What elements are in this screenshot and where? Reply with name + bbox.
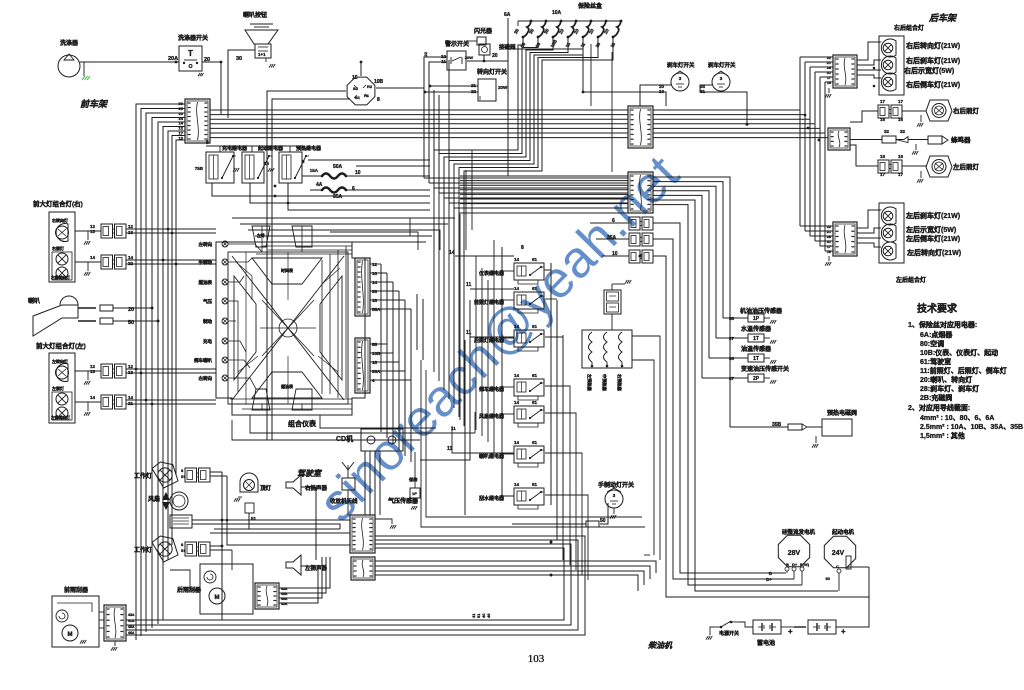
svg-text:14: 14: [514, 257, 520, 262]
svg-text:油温传感器: 油温传感器: [741, 345, 772, 353]
svg-text:61:驾驶室: 61:驾驶室: [920, 357, 951, 366]
svg-text:1,5mm² : 其他: 1,5mm² : 其他: [920, 431, 965, 440]
svg-text:4mm² : 10、80、6、6A: 4mm² : 10、80、6、6A: [920, 415, 994, 422]
svg-text:11: 11: [466, 282, 472, 288]
vertical bundle to cab connector: [464, 340, 466, 515]
svg-text:右前转向灯: 右前转向灯: [50, 275, 70, 280]
bus relay row: [206, 145, 302, 147]
ground buzzer: [915, 144, 917, 150]
svg-text:右转向灯: 右转向灯: [51, 217, 68, 223]
wires cluster to center: [370, 263, 381, 265]
svg-text:14: 14: [90, 255, 96, 260]
wires relay row to center: [232, 217, 455, 219]
svg-text:闪光器: 闪光器: [474, 27, 493, 35]
svg-text:右后照灯: 右后照灯: [952, 106, 980, 115]
svg-text:14: 14: [514, 373, 520, 378]
wires left headlamp 2: [126, 399, 216, 401]
glow plugs box: [582, 330, 632, 368]
speaker right H3: [286, 475, 301, 495]
instrument cluster P1 outline: [216, 242, 365, 415]
glow plug coil 3: [619, 332, 623, 362]
svg-text:前车架: 前车架: [80, 98, 111, 109]
svg-text:起动电机: 起动电机: [831, 528, 855, 536]
svg-text:16: 16: [898, 117, 904, 122]
svg-text:35A: 35A: [333, 194, 343, 200]
relay group outline wires: [459, 247, 461, 420]
svg-text:20W: 20W: [498, 85, 508, 90]
svg-text:6A: 6A: [504, 12, 511, 18]
cluster bottom hug wires: [230, 398, 352, 400]
svg-text:61: 61: [532, 400, 538, 405]
svg-text:50: 50: [600, 518, 606, 524]
center vertical bundle lower: [380, 264, 382, 432]
svg-text:14: 14: [514, 400, 520, 405]
fuse F7: [620, 20, 623, 23]
svg-text:倒车喇叭: 倒车喇叭: [193, 357, 212, 364]
svg-text:15: 15: [372, 298, 378, 303]
ground relay row 1: [233, 168, 235, 172]
svg-text:组合仪表: 组合仪表: [288, 419, 317, 428]
instrument cluster X pattern: [232, 256, 344, 400]
svg-text:2B:充磁阀: 2B:充磁阀: [920, 393, 952, 402]
wire brake switch 2: [700, 85, 747, 124]
svg-text:21: 21: [827, 61, 831, 65]
svg-text:12: 12: [128, 224, 134, 229]
connector C: [628, 172, 653, 213]
wire corner to relays: [421, 360, 645, 527]
svg-text:左后倒车灯(21W): 左后倒车灯(21W): [905, 234, 960, 243]
wire rear wiper left link: [170, 570, 200, 590]
wire to solenoid 35B: [730, 426, 788, 428]
svg-text:80:空调: 80:空调: [920, 339, 944, 348]
svg-text:15: 15: [352, 75, 358, 81]
svg-text:103: 103: [528, 653, 545, 665]
svg-text:22: 22: [827, 225, 831, 229]
svg-text:35A: 35A: [607, 235, 617, 241]
ground horn button: [269, 64, 271, 68]
connector X5 left rear: [833, 222, 857, 256]
glow plug coil 2: [604, 332, 608, 362]
svg-text:61: 61: [532, 257, 538, 262]
cluster internal wires: [232, 244, 262, 252]
wires connector X6 right: [126, 536, 585, 635]
wire buzzer: [850, 139, 882, 141]
svg-text:28: 28: [827, 66, 831, 70]
svg-text:36: 36: [729, 356, 735, 361]
svg-text:50: 50: [826, 576, 831, 581]
corner verticals to cab: [416, 294, 418, 350]
instrument cluster right connector 1: [355, 258, 370, 316]
lamp right rear brake: [881, 56, 896, 74]
svg-text:55: 55: [372, 342, 378, 347]
svg-text:洗涤器开关: 洗涤器开关: [178, 34, 208, 42]
lamp left rear width: [881, 224, 896, 242]
svg-text:28:刹车灯、刹车灯: 28:刹车灯、刹车灯: [920, 384, 979, 393]
svg-text:17: 17: [898, 172, 904, 177]
svg-text:21: 21: [827, 230, 831, 234]
turn vertical drops: [433, 90, 435, 188]
center vertical bundle: [448, 60, 450, 203]
svg-text:22: 22: [423, 51, 428, 56]
svg-text:36: 36: [372, 289, 378, 294]
fuse F5: [590, 20, 593, 23]
svg-text:右后倒车灯(21W): 右后倒车灯(21W): [905, 80, 960, 89]
svg-text:左后照灯: 左后照灯: [952, 162, 980, 171]
svg-text:时间表: 时间表: [281, 267, 293, 273]
svg-text:变速油压传感开关: 变速油压传感开关: [741, 365, 789, 373]
svg-text:1T: 1T: [753, 336, 759, 342]
svg-text:前大灯组合灯(右): 前大灯组合灯(右): [33, 199, 83, 208]
left rear lamp cluster box: [879, 203, 904, 263]
wires left headlamp 1: [126, 368, 216, 370]
ground parking brake: [613, 508, 615, 514]
battery GB2: [808, 620, 836, 634]
svg-text:6: 6: [352, 186, 355, 192]
lamp left rear work: [926, 156, 952, 177]
svg-text:C: C: [836, 564, 839, 569]
connector X8 front wiper: [104, 605, 126, 641]
svg-text:17: 17: [880, 99, 886, 104]
svg-text:51: 51: [251, 516, 257, 521]
svg-text:10B: 10B: [372, 351, 381, 356]
svg-text:左后转向灯(21W): 左后转向灯(21W): [906, 248, 961, 257]
wires above cluster extra: [255, 235, 432, 237]
svg-text:61: 61: [532, 373, 538, 378]
ground left work lamp: [920, 171, 922, 178]
svg-text:CD机: CD机: [336, 434, 353, 443]
relay feeder verticals: [475, 256, 477, 430]
wires starter: [838, 573, 840, 591]
antenna W1: [347, 465, 349, 478]
svg-text:17: 17: [827, 76, 831, 80]
svg-text:左前灯: 左前灯: [51, 385, 64, 391]
svg-text:蜂鸣器: 蜂鸣器: [951, 135, 971, 144]
instrument cluster inner box: [228, 252, 348, 404]
wires below cluster: [250, 415, 430, 433]
svg-text:1+1: 1+1: [258, 52, 266, 57]
cluster overlay verticals: [261, 226, 263, 252]
junction dots X6: [550, 541, 553, 544]
ground right work lamp: [920, 115, 922, 122]
svg-text:燃油表: 燃油表: [199, 279, 213, 286]
svg-text:刹车灯开关: 刹车灯开关: [708, 61, 736, 69]
svg-text:36A: 36A: [372, 369, 381, 374]
label cab 驾驶室: [297, 468, 323, 478]
wires from fuses: [434, 37, 523, 188]
fuse F3: [560, 20, 563, 23]
wire antenna: [347, 490, 349, 515]
label front frame 前车架: [80, 98, 111, 109]
svg-text:左转向: 左转向: [199, 241, 213, 248]
svg-text:左扬声器: 左扬声器: [304, 564, 328, 572]
svg-text:37: 37: [729, 336, 735, 341]
svg-text:30: 30: [236, 56, 242, 62]
svg-text:16: 16: [880, 117, 886, 122]
svg-text:警示开关: 警示开关: [444, 40, 469, 48]
ground right headlamp 1: [84, 231, 88, 240]
glow plug coil 1: [589, 332, 593, 362]
svg-text:后车架: 后车架: [929, 12, 960, 23]
wires CD down: [364, 451, 366, 515]
svg-text:20W: 20W: [465, 55, 473, 60]
svg-text:16: 16: [880, 154, 886, 159]
ground solenoid: [815, 436, 817, 443]
svg-text:手制动灯开关: 手制动灯开关: [598, 481, 634, 489]
svg-text:M: M: [215, 595, 220, 601]
wire ignition left: [267, 91, 346, 440]
svg-text:1、保险丝对应用电器:: 1、保险丝对应用电器:: [908, 320, 977, 329]
svg-text:蓄电池: 蓄电池: [757, 639, 775, 647]
svg-text:喇叭按钮: 喇叭按钮: [243, 11, 267, 19]
ground left headlamp 2: [84, 402, 88, 411]
wires relay row bottom: [212, 183, 430, 196]
svg-text:气压: 气压: [203, 298, 212, 305]
svg-text:柴油机: 柴油机: [647, 640, 675, 650]
svg-text:M: M: [68, 632, 73, 638]
svg-text:刹车灯开关: 刹车灯开关: [667, 61, 695, 69]
wires speaker right: [301, 487, 316, 560]
svg-text:4A: 4A: [316, 182, 323, 188]
wires fuse to connector B: [590, 44, 592, 106]
svg-text:气压传感器: 气压传感器: [387, 497, 419, 505]
cluster inner verticals right: [321, 260, 323, 394]
wires cab extra: [214, 528, 336, 530]
svg-text:46: 46: [486, 613, 491, 618]
svg-text:接磁阀: 接磁阀: [499, 43, 516, 51]
svg-text:前大灯组合灯(左): 前大灯组合灯(左): [36, 341, 86, 350]
svg-text:右后组合灯: 右后组合灯: [893, 24, 924, 32]
fuse F4: [575, 20, 578, 23]
wires front wiper to cab: [99, 611, 104, 613]
wires work lamp 2: [210, 545, 222, 547]
wire hazard left: [424, 57, 447, 178]
svg-text:D+: D+: [766, 577, 772, 582]
fuse F6: [605, 20, 608, 23]
svg-text:前照灯继电器: 前照灯继电器: [474, 299, 505, 306]
wires connector A left bundle: [136, 104, 185, 640]
wires connector X7 right: [375, 561, 656, 573]
svg-text:10B:仪表、仪表灯、起动: 10B:仪表、仪表灯、起动: [920, 348, 998, 357]
label diesel engine 柴油机: [647, 640, 675, 650]
svg-text:右后示宽灯(5W): 右后示宽灯(5W): [903, 66, 954, 75]
svg-text:16: 16: [827, 250, 831, 254]
svg-text:右预热塞: 右预热塞: [616, 374, 623, 392]
rear bundle verticals: [799, 57, 801, 110]
svg-text:左前转向灯: 左前转向灯: [50, 415, 70, 420]
wires cluster top to highway: [345, 218, 410, 236]
svg-text:保险丝盒: 保险丝盒: [577, 2, 603, 10]
svg-text:1T: 1T: [753, 356, 759, 362]
wire glow box right: [632, 336, 660, 560]
svg-text:43A: 43A: [128, 613, 135, 617]
relay right verticals: [550, 263, 552, 505]
ground connector X5: [828, 256, 830, 261]
lamp right rear reverse: [881, 73, 896, 91]
wire pair to lamp left rear: [902, 165, 926, 167]
svg-text:2、对应用导线截面:: 2、对应用导线截面:: [908, 403, 970, 412]
svg-text:55A: 55A: [372, 307, 381, 312]
wires right headlamp 2: [126, 259, 216, 261]
svg-text:15: 15: [372, 360, 378, 365]
svg-text:75B: 75B: [195, 166, 204, 171]
svg-text:17: 17: [880, 172, 886, 177]
svg-text:保险: 保险: [408, 476, 418, 483]
svg-text:手制动: 手制动: [199, 259, 213, 266]
svg-text:20: 20: [492, 53, 498, 59]
lamp right rear turn: [881, 39, 896, 57]
ground connector X3: [828, 88, 830, 93]
svg-text:中预热塞: 中预热塞: [601, 374, 608, 392]
svg-text:技术要求: 技术要求: [917, 302, 958, 315]
svg-text:10A: 10A: [552, 10, 562, 16]
wire batteries link: [738, 622, 753, 627]
svg-text:工作灯: 工作灯: [134, 472, 152, 480]
ground dome lamp: [238, 496, 242, 498]
svg-text:28V: 28V: [788, 550, 801, 557]
svg-text:右后转向灯(21W): 右后转向灯(21W): [905, 41, 960, 50]
wire ignition right: [376, 87, 424, 89]
svg-text:14: 14: [514, 482, 520, 487]
wires connector C right breakout: [653, 177, 730, 427]
wire dome lamp: [249, 513, 340, 529]
svg-text:前雨刮器: 前雨刮器: [64, 586, 89, 594]
svg-text:后照灯继电器: 后照灯继电器: [474, 337, 505, 344]
svg-text:10: 10: [355, 170, 361, 176]
svg-text:15A: 15A: [310, 168, 319, 173]
svg-text:46A: 46A: [128, 631, 135, 635]
wires X5 to lamps: [857, 210, 881, 228]
relay column bus left: [502, 247, 514, 496]
node ignition feed: [220, 61, 223, 64]
svg-text:61: 61: [532, 440, 538, 445]
svg-text:14: 14: [514, 440, 520, 445]
wires to connector X3: [800, 56, 833, 58]
svg-text:右后刹车灯(21W): 右后刹车灯(21W): [905, 56, 960, 65]
instrument cluster bottom shapes: [252, 389, 270, 410]
instrument cluster top shapes: [252, 226, 270, 247]
svg-text:14: 14: [514, 324, 520, 329]
svg-text:32: 32: [884, 129, 890, 134]
svg-text:D+: D+: [792, 562, 798, 567]
svg-text:35B: 35B: [772, 422, 782, 428]
svg-text:1P: 1P: [753, 316, 760, 322]
svg-text:14: 14: [449, 250, 455, 256]
ground left headlamp 1: [84, 371, 88, 380]
svg-text:47: 47: [729, 376, 735, 381]
svg-text:左转: 左转: [256, 233, 265, 238]
svg-text:P(W): P(W): [800, 562, 810, 567]
svg-text:14: 14: [372, 280, 378, 285]
connector X1 front frame: [185, 99, 210, 143]
svg-text:+: +: [788, 627, 793, 636]
connector X2 cab to rear: [628, 106, 653, 148]
label rear frame 后车架: [929, 12, 960, 23]
svg-text:右前灯: 右前灯: [51, 245, 64, 251]
wire ignition top: [360, 62, 362, 76]
connector X3 right rear: [833, 55, 857, 88]
svg-text:32: 32: [900, 129, 906, 134]
svg-text:左预热塞: 左预热塞: [586, 373, 593, 392]
svg-text:充电: 充电: [203, 338, 212, 345]
connector X4 rear mid: [828, 128, 850, 150]
svg-text:11: 11: [451, 426, 456, 431]
svg-text:R2: R2: [367, 84, 373, 89]
svg-text:8: 8: [377, 97, 380, 103]
svg-text:50A: 50A: [333, 164, 343, 170]
instrument cluster left terminals: [222, 241, 228, 247]
wire preheat resistor down: [611, 314, 613, 330]
svg-text:61: 61: [532, 324, 538, 329]
instrument cluster right connector 2: [355, 338, 370, 393]
fuse F1: [530, 20, 533, 23]
wire flasher: [483, 55, 485, 61]
ground right headlamp 2: [84, 262, 88, 271]
svg-text:燃油表: 燃油表: [280, 383, 293, 389]
svg-text:洗涤器: 洗涤器: [60, 39, 79, 47]
svg-text:左后示宽灯(5W): 左后示宽灯(5W): [905, 225, 956, 234]
ignition switch S3: [347, 77, 375, 105]
wires horn: [113, 307, 152, 309]
wires X3 to lamps: [857, 42, 881, 60]
svg-text:制动: 制动: [203, 318, 212, 325]
svg-text:2.5mm² : 10A、10B、35A、35B: 2.5mm² : 10A、10B、35A、35B: [920, 424, 1023, 431]
svg-text:6A:点烟器: 6A:点烟器: [920, 330, 953, 339]
battery GB1: [753, 620, 781, 634]
svg-text:11:前照灯、后照灯、倒车灯: 11:前照灯、后照灯、倒车灯: [920, 366, 1007, 375]
wires generator: [786, 571, 788, 573]
svg-text:41A: 41A: [128, 619, 135, 623]
svg-text:10B: 10B: [374, 79, 384, 85]
extra center crossings: [459, 214, 461, 247]
svg-text:B: B: [786, 562, 789, 567]
svg-text:17: 17: [827, 245, 831, 249]
wires work lamp 1: [210, 471, 222, 473]
svg-text:电源开关: 电源开关: [719, 630, 739, 637]
svg-text:20:喇叭、转向灯: 20:喇叭、转向灯: [920, 375, 972, 384]
wires relay diode row right: [308, 159, 430, 161]
svg-text:预热电磁阀: 预热电磁阀: [827, 409, 857, 417]
wire brake switch 1: [640, 85, 671, 106]
speaker left H4: [286, 555, 301, 575]
svg-text:右转向: 右转向: [198, 375, 213, 382]
cluster top hug wires: [262, 245, 352, 247]
svg-text:喇叭: 喇叭: [28, 297, 40, 305]
svg-text:左后组合灯: 左后组合灯: [895, 276, 926, 284]
ground air sensor: [414, 498, 416, 504]
lamp left rear turn: [881, 242, 896, 260]
ground under switch: [198, 73, 200, 76]
wires right headlamp 1: [126, 228, 216, 230]
glow feed verticals down: [644, 554, 650, 556]
connector X9 rear wiper: [255, 583, 279, 609]
lamp left rear brake: [881, 207, 896, 225]
wire starter B to battery: [836, 567, 869, 627]
staircase bundle to right: [424, 177, 628, 179]
svg-text:左后刹车灯(21W): 左后刹车灯(21W): [905, 211, 960, 220]
svg-text:22: 22: [827, 56, 831, 60]
svg-text:工作灯: 工作灯: [134, 546, 152, 554]
svg-text:61: 61: [532, 482, 538, 487]
svg-text:11: 11: [466, 330, 472, 336]
rear bundle junction dots: [807, 127, 810, 130]
svg-text:+: +: [841, 627, 846, 636]
svg-text:31: 31: [827, 240, 831, 244]
wires connector B right: [653, 109, 800, 111]
wire switch to junction: [202, 62, 221, 114]
svg-text:31: 31: [827, 71, 831, 75]
svg-text:28: 28: [827, 235, 831, 239]
svg-text:12: 12: [372, 262, 378, 267]
